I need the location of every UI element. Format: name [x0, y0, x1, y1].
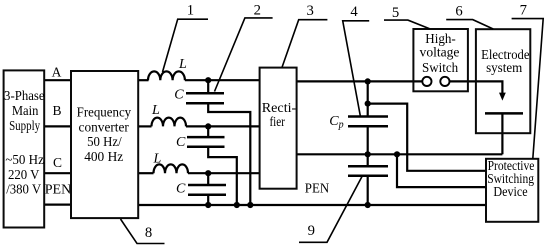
node PEN C1	[247, 202, 253, 208]
node phase B junction	[205, 123, 211, 129]
svg-text:PEN: PEN	[305, 181, 330, 196]
switch contact left	[422, 77, 431, 86]
svg-text:C: C	[53, 155, 62, 170]
capacitor C3	[188, 184, 226, 187]
wire Cp middle	[367, 126, 369, 154]
wire phase C to rectifier	[188, 172, 260, 174]
electrode plate	[485, 112, 523, 115]
wire DC return from rectifier to electrode	[297, 153, 503, 155]
svg-text:Frequency: Frequency	[77, 104, 132, 119]
svg-text:C: C	[174, 87, 184, 102]
svg-text:fier: fier	[269, 114, 285, 129]
capacitor C2 top stub	[207, 126, 209, 137]
svg-text:Recti-: Recti-	[262, 100, 297, 115]
box electrode system	[476, 29, 530, 133]
node return PSD branch	[394, 151, 400, 157]
wire phase B to rectifier	[186, 125, 260, 127]
capacitor C1	[186, 92, 224, 95]
wire C from supply to converter	[44, 172, 71, 174]
text protective switching device	[487, 158, 534, 199]
svg-text:system: system	[486, 60, 523, 75]
svg-text:L: L	[178, 57, 187, 72]
svg-text:C: C	[176, 135, 186, 150]
svg-text:B: B	[52, 103, 61, 118]
box rectifier	[260, 68, 297, 189]
capacitor C1 top stub	[207, 80, 209, 93]
inductor L2	[152, 118, 187, 127]
text rectifier	[262, 100, 297, 129]
svg-text:400 Hz: 400 Hz	[84, 149, 123, 164]
svg-text:A: A	[52, 65, 62, 80]
svg-text:L: L	[151, 103, 160, 118]
node Cp branch	[365, 101, 371, 107]
wire from switch into electrode system	[450, 81, 503, 94]
svg-text:9: 9	[308, 223, 315, 239]
wire C3 return	[207, 195, 209, 205]
wire A from supply to converter	[44, 79, 71, 81]
node PEN C2	[234, 202, 240, 208]
svg-text:voltage: voltage	[420, 45, 460, 60]
node phase C junction	[205, 170, 211, 176]
wire C2 return	[208, 147, 237, 205]
svg-text:Device: Device	[493, 184, 527, 199]
svg-text:Main: Main	[12, 103, 39, 118]
node phase A junction	[205, 77, 211, 83]
svg-text:C: C	[176, 182, 186, 197]
wire monitor branch from return line to PSD	[397, 154, 485, 187]
capacitor Cp lower	[348, 165, 388, 168]
wire Cp chain vertical top	[367, 81, 369, 116]
svg-text:6: 6	[455, 3, 462, 19]
svg-text:~50 Hz: ~50 Hz	[5, 152, 44, 167]
svg-text:3-Phase: 3-Phase	[4, 88, 45, 103]
svg-text:3: 3	[307, 3, 314, 19]
switch contact right	[440, 77, 449, 86]
arrowhead	[499, 93, 506, 101]
wire C1 return	[208, 103, 250, 205]
text supply	[4, 88, 45, 197]
svg-text:/380 V: /380 V	[6, 181, 41, 196]
svg-text:converter: converter	[79, 119, 130, 134]
wire B from supply to converter	[44, 125, 71, 127]
box protective switching device	[486, 159, 538, 222]
svg-text:5: 5	[392, 5, 399, 21]
node PEN C3	[205, 202, 211, 208]
inductor L1	[148, 71, 185, 80]
capacitor C3 top stub	[207, 173, 209, 185]
svg-text:PEN: PEN	[45, 182, 72, 197]
wire Cp lower stubs	[367, 154, 369, 205]
wire phase A to rectifier	[185, 79, 260, 81]
svg-text:Supply: Supply	[9, 118, 40, 133]
svg-text:8: 8	[145, 225, 152, 241]
wire monitor branch from DC line to PSD	[368, 104, 486, 171]
svg-text:7: 7	[520, 3, 527, 19]
inductor L3	[154, 164, 189, 173]
capacitor C2	[187, 136, 225, 139]
text electrode system	[481, 47, 529, 75]
node DC top junction	[365, 78, 371, 84]
node return Cp mid	[365, 151, 371, 157]
wire PEN bus	[138, 204, 485, 206]
electrode stem wire	[501, 113, 503, 154]
wire DC positive from rectifier to switch	[297, 80, 423, 82]
box 3-phase main supply	[4, 70, 45, 227]
wire phase B converter to inductor L2	[138, 125, 151, 127]
wire phase C converter to inductor L3	[138, 172, 153, 174]
text high-voltage switch	[420, 31, 460, 75]
text frequency converter	[77, 104, 132, 164]
wire PEN from supply to converter	[44, 204, 71, 206]
svg-text:50 Hz/: 50 Hz/	[87, 134, 122, 149]
svg-text:220 V: 220 V	[8, 167, 40, 182]
svg-text:1: 1	[187, 2, 194, 18]
node PEN Cp	[365, 202, 371, 208]
svg-text:L: L	[153, 152, 162, 167]
svg-text:2: 2	[254, 2, 261, 18]
box frequency converter	[71, 71, 138, 218]
wire phase A converter to inductor L1	[138, 79, 148, 81]
svg-text:4: 4	[350, 4, 358, 20]
box high-voltage switch	[413, 29, 468, 91]
svg-text:Switch: Switch	[422, 60, 458, 75]
capacitor Cp upper	[348, 115, 388, 118]
